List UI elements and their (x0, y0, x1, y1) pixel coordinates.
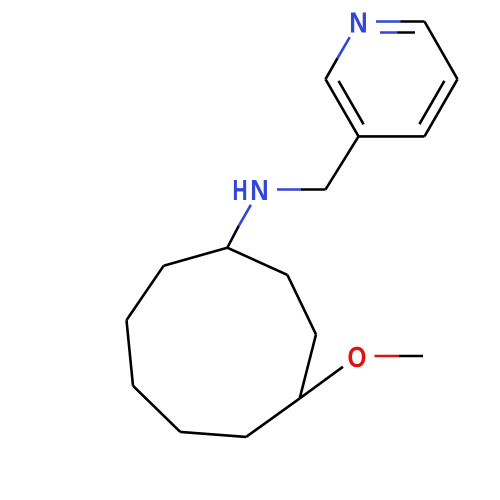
pyridine ring: bond N1-C6 blue half (338, 37, 350, 58)
bond N amine-V1 black half (227, 226, 238, 248)
bond CH2a-N amine black half (301, 188, 326, 191)
pyridine ring: bond C5=C6 inner (339, 81, 364, 124)
svg-text:N: N (349, 6, 367, 39)
cyclononane ring: bond V4-V5 (246, 398, 300, 437)
cyclononane ring: bond V2-V3 (287, 275, 316, 335)
svg-text:N: N (250, 173, 268, 206)
pyridine ring: bond N1=C2 outer black half (401, 20, 425, 23)
pyridine ring: bond N1=C2 outer blue half (376, 20, 401, 23)
pyridine ring: bond C5=C6 outer (326, 79, 359, 136)
cyclononane ring: bond V9-V1 (164, 248, 228, 266)
pyridine ring: bond C4-C5 (359, 135, 425, 138)
bond C5-CH2a (benzylic methylene) (326, 136, 359, 189)
bond O-CH3 red half (375, 355, 399, 358)
cyclononane ring: bond V5-V6 (180, 432, 246, 437)
svg-text:O: O (348, 341, 367, 373)
pyridine ring: bond N1-C6 black half (326, 58, 338, 79)
cyclononane ring: bond V3-V4 (300, 334, 316, 398)
cyclononane ring: bond V8-V9 (127, 266, 164, 321)
bond O-V4 (methoxy to ring, black) (300, 367, 343, 399)
cyclononane ring: bond V1-V2 (227, 248, 287, 275)
pyridine ring: bond C3=C4 inner (419, 81, 444, 124)
bond O-CH3 black half (399, 355, 423, 358)
bond CH2a-N amine blue half (277, 188, 301, 191)
svg-text:H: H (232, 175, 247, 207)
pyridine ring: bond N1=C2 inner black half (398, 31, 416, 34)
pyridine ring: bond N1=C2 inner blue half (380, 31, 398, 34)
bond N amine-R1 blue half (239, 205, 251, 226)
cyclononane ring: bond V6-V7 (133, 386, 180, 432)
cyclononane ring: bond V7-V8 (127, 320, 134, 386)
pyridine ring: bond C2-C3 (425, 22, 458, 80)
pyridine ring: bond C3=C4 outer (425, 79, 458, 136)
